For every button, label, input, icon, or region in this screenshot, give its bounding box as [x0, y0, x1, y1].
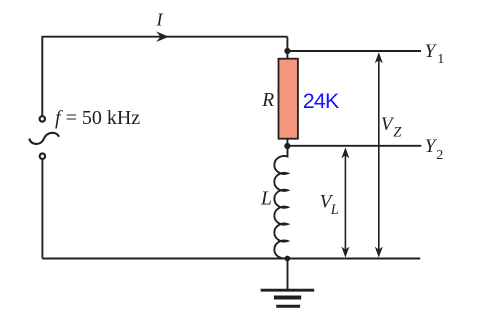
ground bar 1 [261, 289, 315, 292]
VZ arrowhead up [375, 52, 383, 63]
source sine symbol [29, 133, 59, 144]
svg-text:24K: 24K [303, 89, 340, 113]
svg-text:R: R [261, 90, 274, 111]
wire Y2 line [287, 145, 421, 147]
wire bottom [42, 258, 420, 260]
inductor L coil [274, 146, 287, 259]
node B junction dot [284, 143, 290, 149]
VZ arrow shaft [378, 54, 380, 255]
wire node A to resistor [286, 37, 288, 59]
VL arrowhead up [341, 147, 349, 158]
svg-text:L: L [260, 188, 272, 209]
svg-text:Z: Z [393, 125, 402, 141]
node A junction dot [284, 48, 290, 54]
svg-text:L: L [330, 202, 339, 218]
svg-text:f = 50 kHz: f = 50 kHz [55, 107, 140, 129]
wire top (source to node A) [42, 37, 287, 116]
svg-text:1: 1 [437, 52, 444, 67]
VL arrow shaft [344, 150, 346, 255]
terminal bottom [40, 154, 45, 159]
current arrowhead I [156, 31, 169, 42]
wire left lower [41, 160, 43, 259]
VZ arrowhead down [375, 247, 383, 258]
svg-text:2: 2 [436, 148, 443, 163]
svg-text:I: I [156, 10, 164, 30]
wire resistor to node B [286, 139, 288, 146]
wire Y1 line [287, 50, 421, 52]
resistor R body [279, 59, 298, 139]
ground stub [287, 259, 289, 291]
terminal top [40, 116, 45, 121]
VL arrowhead down [341, 247, 349, 258]
ground bar 2 [274, 296, 301, 300]
ground bar 3 [276, 305, 300, 308]
node C junction dot [285, 256, 291, 262]
